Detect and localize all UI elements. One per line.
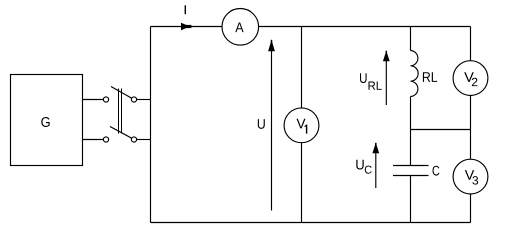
wire V2 branch lower [470,96,472,130]
wire RL to capacitor [410,97,412,166]
switch S1 bottom left contact [103,137,108,142]
label U [258,119,265,129]
label G [41,117,49,127]
arrow URL head [383,51,390,61]
capacitor C top plate [393,165,429,167]
label UC_C [365,166,372,174]
label V1_1 [305,125,308,134]
label URL_RL [369,82,382,90]
wire ammeter to right top corner [259,26,471,28]
voltmeter V3 [453,159,488,194]
label URL_U [360,73,367,83]
switch S1 top right contact [131,97,136,102]
ammeter A [222,9,259,46]
switch S1 bottom blade [110,127,132,139]
wire G bottom terminal [82,139,103,141]
arrow UC head [372,143,379,153]
wire bottom of main loop [151,222,471,224]
arrow I head [181,23,190,30]
wire RL branch upper [410,27,412,51]
switch S1 top blade [111,87,132,99]
label UC_U [356,160,363,170]
wire V3 branch upper [470,130,472,160]
wire left vertical of main loop [150,27,152,223]
label RL [423,72,437,82]
label V1_V [297,119,306,129]
wire top left to ammeter [151,26,223,28]
switch S1 bottom right contact [131,137,136,142]
label I (drawn as stroke) [184,5,186,14]
wire junction RL-C to V2-V3 [411,129,471,131]
arrow UC stem [375,148,377,188]
wire V1 branch lower [301,143,303,223]
voltmeter V1 [284,108,319,143]
label V2_2 [472,78,477,86]
wire V3 branch lower [470,194,472,223]
wire G top terminal [82,99,103,101]
wire switch bottom to main loop [137,139,151,141]
label A [235,22,243,32]
capacitor C bottom plate [393,175,429,177]
generator G box [11,75,83,166]
wire switch top to main loop [137,99,151,101]
wire capacitor to bottom [410,176,412,223]
wire V1 branch upper [301,27,303,108]
wire V2 branch upper [470,27,472,61]
switch S1 top left contact [103,97,108,102]
arrow U stem [271,45,273,211]
voltmeter V2 [453,61,488,96]
label C [433,166,440,176]
label V3_V [465,170,474,180]
label V2_V [464,72,474,82]
label V3_3 [472,176,478,185]
arrow URL stem [385,56,387,105]
inductor RL [411,51,419,97]
arrow U head [268,40,275,51]
switch S1 mechanical coupling [118,89,120,134]
